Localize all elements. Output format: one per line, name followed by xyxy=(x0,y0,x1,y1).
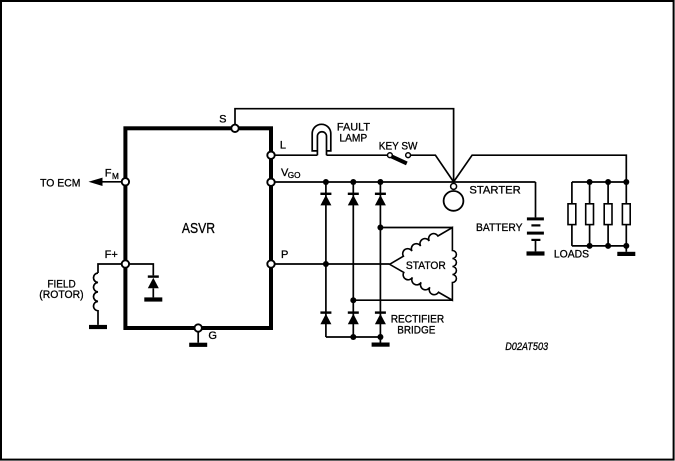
svg-text:TO ECM: TO ECM xyxy=(40,177,80,189)
svg-text:STATOR: STATOR xyxy=(406,260,446,272)
svg-text:F+: F+ xyxy=(105,249,118,261)
svg-text:BRIDGE: BRIDGE xyxy=(397,324,435,336)
svg-text:BATTERY: BATTERY xyxy=(476,222,523,234)
svg-text:STARTER: STARTER xyxy=(469,185,520,197)
svg-text:G: G xyxy=(208,330,217,342)
svg-text:LAMP: LAMP xyxy=(339,132,367,144)
svg-text:F: F xyxy=(105,168,112,180)
svg-text:ASVR: ASVR xyxy=(182,221,215,237)
svg-text:M: M xyxy=(112,172,119,181)
svg-text:D02AT503: D02AT503 xyxy=(505,341,549,353)
svg-text:GO: GO xyxy=(288,171,301,180)
svg-text:KEY SW: KEY SW xyxy=(379,140,418,152)
svg-text:P: P xyxy=(281,249,288,261)
svg-text:(ROTOR): (ROTOR) xyxy=(39,289,83,301)
svg-text:S: S xyxy=(219,113,226,125)
svg-text:L: L xyxy=(280,140,286,152)
svg-text:LOADS: LOADS xyxy=(554,249,589,261)
